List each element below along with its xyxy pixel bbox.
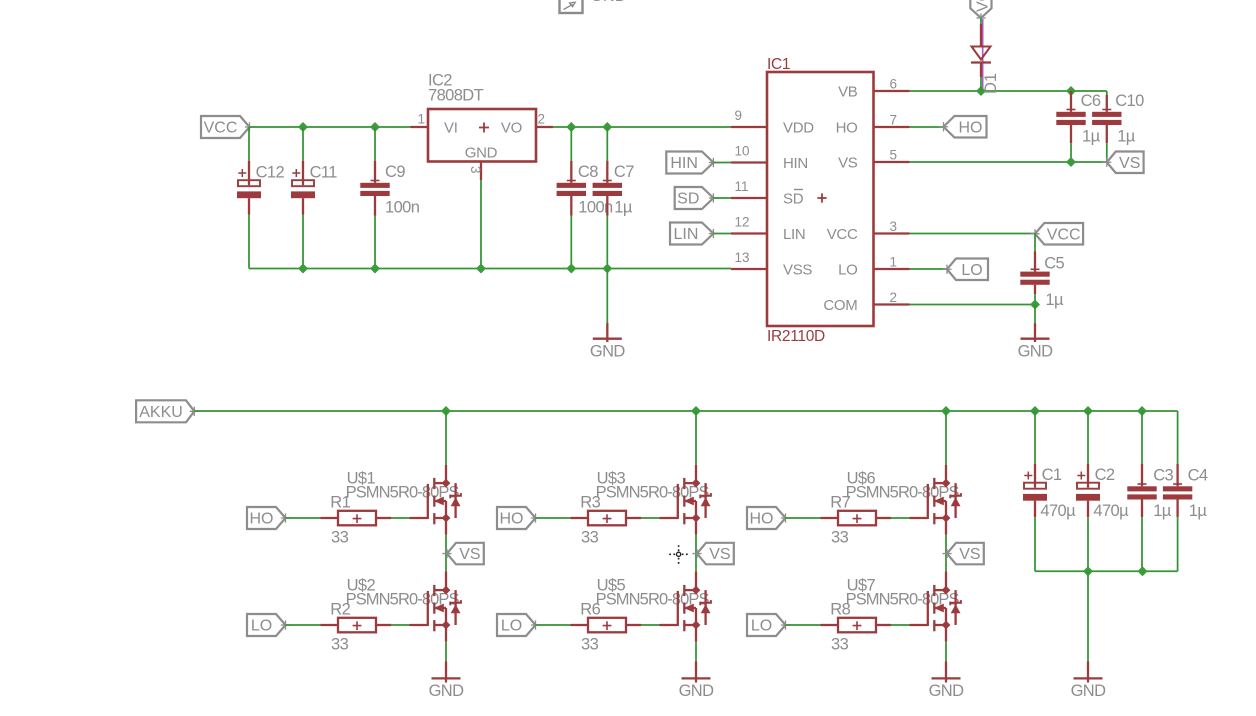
GND pin lead: [445, 662, 447, 683]
U$7 source pin: [945, 625, 947, 642]
svg-text:R1: R1: [330, 493, 350, 511]
svg-text:C3: C3: [1153, 466, 1173, 484]
ground symbol GND bridge 1: [429, 678, 465, 700]
capacitor C3: [1127, 411, 1173, 571]
junction C7/gnd rail: [602, 264, 612, 274]
net flag VS bridge 2: [692, 543, 733, 565]
svg-text:6: 6: [890, 77, 898, 92]
wire SD to pin 11: [713, 197, 731, 199]
svg-text:VS: VS: [709, 546, 730, 563]
IC1 right pin names: [823, 84, 858, 315]
net flag HO (pin 7): [939, 116, 987, 138]
capacitor C6: [1056, 91, 1101, 162]
polarized capacitor C11: [291, 127, 337, 269]
svg-text:33: 33: [331, 528, 349, 546]
svg-text:HO: HO: [250, 511, 274, 528]
wire AKKU to U$3 drain: [695, 411, 697, 465]
resistor R6: [571, 600, 642, 653]
GND pin lead: [606, 323, 608, 342]
U$6 source pin: [945, 518, 947, 535]
svg-text:11: 11: [735, 179, 749, 194]
junction C6/VS: [1066, 157, 1076, 167]
svg-text:VS: VS: [959, 546, 980, 563]
junction C2/bottom rail: [1083, 566, 1093, 576]
svg-text:VS: VS: [838, 155, 858, 172]
IC1 pin 13: [731, 268, 767, 270]
U$1 drain pin: [445, 465, 447, 483]
net flag LO bridge 2: [497, 614, 540, 636]
wire LIN to pin 12: [713, 233, 731, 235]
wire VCC rail to IC2 pin 1: [250, 126, 413, 128]
U$7 name/value text: [846, 577, 960, 609]
svg-text:SD: SD: [783, 191, 804, 208]
IC1 pin 2: [874, 303, 910, 305]
voltage regulator IC2 7808DT: [428, 72, 536, 162]
svg-text:R6: R6: [580, 600, 600, 618]
svg-text:C10: C10: [1115, 92, 1144, 110]
polarized capacitor C1: [1023, 411, 1076, 571]
svg-text:1µ: 1µ: [1045, 291, 1064, 309]
GND pin lead: [695, 662, 697, 683]
junction C5/COM: [1030, 300, 1040, 310]
junction C9/top rail: [370, 122, 380, 132]
capacitor C10: [1092, 92, 1144, 162]
capacitor C8: [557, 127, 613, 269]
svg-text:VS: VS: [459, 546, 480, 563]
wire VB net: [910, 90, 1107, 92]
U$3 name/value text: [596, 469, 710, 501]
svg-text:C7: C7: [614, 163, 634, 181]
U$6 name/value text: [846, 469, 960, 501]
resistor R8: [821, 600, 892, 653]
svg-text:D1: D1: [982, 73, 1000, 94]
IC1 pin 3: [874, 232, 910, 234]
svg-text:100n: 100n: [385, 199, 420, 217]
wire HO to R7: [786, 517, 821, 519]
wire LO pin1: [910, 268, 948, 270]
svg-text:VDD: VDD: [783, 120, 814, 137]
svg-text:LO: LO: [501, 618, 522, 635]
svg-text:10: 10: [735, 143, 750, 158]
wire VS net top: [910, 161, 1107, 163]
junction AKKU rail x=946: [941, 406, 951, 416]
junction AKKU rail x=1035: [1030, 406, 1040, 416]
IC2 pin 3 (GND): [480, 162, 482, 181]
svg-text:HO: HO: [750, 511, 774, 528]
capacitor C9: [360, 127, 419, 269]
svg-text:GND: GND: [590, 343, 626, 361]
svg-text:LO: LO: [961, 262, 982, 279]
net flag LO bridge 3: [747, 614, 790, 636]
svg-text:HO: HO: [500, 511, 524, 528]
net flag SD: [675, 187, 718, 209]
U$1 name/value text: [346, 469, 460, 501]
svg-text:1µ: 1µ: [1153, 502, 1172, 520]
capacitor C5: [1020, 234, 1064, 310]
svg-text:GND: GND: [1071, 682, 1107, 700]
wire cap bottom rail: [1035, 570, 1178, 572]
wire R8 to gate: [891, 624, 910, 626]
svg-text:GND: GND: [429, 682, 465, 700]
junction C11/gnd rail: [298, 264, 308, 274]
wire LO to R8: [786, 624, 821, 626]
svg-text:C6: C6: [1081, 92, 1101, 110]
IC1 plus mark (SD row): [817, 193, 826, 202]
IC1 pin 7: [874, 126, 910, 128]
svg-text:COM: COM: [823, 297, 857, 314]
junction C8/gnd rail: [566, 264, 576, 274]
junction AKKU rail x=696: [691, 406, 701, 416]
U$3 source pin: [695, 518, 697, 535]
svg-text:VCC: VCC: [975, 0, 992, 12]
svg-text:R3: R3: [580, 493, 600, 511]
IC2 plus mark: [479, 123, 489, 133]
U$5 drain pin: [695, 571, 697, 590]
svg-text:1µ: 1µ: [1082, 128, 1101, 146]
svg-text:GND: GND: [679, 682, 715, 700]
wire VS node: [945, 535, 947, 572]
transistor U$2 PSMN5R0-80PS lower (N-MOSFET): [410, 585, 461, 631]
wire gnd rail to GND symbol: [606, 269, 608, 324]
junction AKKU rail x=446: [441, 406, 451, 416]
gate driver IC1 IR2110D box: [767, 56, 874, 345]
net flag LO (pin 1): [942, 259, 988, 281]
IC1 pin 11: [731, 197, 767, 199]
svg-text:12: 12: [735, 214, 750, 229]
svg-text:HIN: HIN: [783, 155, 808, 172]
IC2 pin 1: [411, 126, 429, 128]
junction C9/gnd rail: [370, 264, 380, 274]
svg-text:IR2110D: IR2110D: [767, 328, 825, 345]
resistor R2: [321, 600, 392, 653]
svg-text:33: 33: [831, 528, 849, 546]
IC1 pin 6: [874, 90, 910, 92]
svg-text:VI: VI: [444, 120, 458, 137]
net flag VCC (input rail): [201, 116, 254, 138]
ground symbol GND bridge 3: [929, 678, 965, 700]
svg-text:1µ: 1µ: [1189, 502, 1208, 520]
svg-text:1µ: 1µ: [1117, 128, 1136, 146]
U$3 drain pin: [695, 465, 697, 483]
svg-text:C4: C4: [1188, 466, 1208, 484]
net flag HO bridge 1: [247, 507, 290, 529]
transistor U$5 PSMN5R0-80PS lower (N-MOSFET): [660, 585, 711, 631]
wire R6 to gate: [641, 624, 660, 626]
junction C3/bottom rail: [1138, 566, 1148, 576]
IC1 pin 9: [731, 126, 767, 128]
junction C7/top rail: [602, 122, 612, 132]
wire source to GND: [445, 642, 447, 662]
net flag AKKU: [136, 400, 199, 422]
net flag VS bridge 1: [442, 543, 483, 565]
svg-text:VSS: VSS: [783, 262, 812, 279]
svg-text:IC1: IC1: [767, 56, 790, 73]
net flag LO bridge 1: [247, 614, 290, 636]
transistor U$3 PSMN5R0-80PS upper (N-MOSFET): [660, 478, 711, 524]
net flag LIN: [670, 223, 718, 245]
GND pin lead: [945, 662, 947, 683]
junction AKKU rail x=1088: [1083, 406, 1093, 416]
polarized capacitor C2: [1076, 411, 1129, 571]
svg-text:AKKU: AKKU: [139, 404, 183, 421]
U$5 name/value text: [596, 577, 710, 609]
svg-text:7: 7: [890, 113, 898, 128]
IC1 pin 12: [731, 232, 767, 234]
net flag VS (top right): [1102, 152, 1143, 174]
svg-text:C9: C9: [385, 163, 405, 181]
wire R7 to gate: [891, 517, 910, 519]
transistor U$1 PSMN5R0-80PS upper (N-MOSFET): [410, 478, 461, 524]
wire R2 to gate: [391, 624, 410, 626]
wire AKKU to U$6 drain: [945, 411, 947, 465]
svg-text:LIN: LIN: [673, 226, 698, 243]
wire ground rail left section: [249, 268, 731, 270]
wire R3 to gate: [641, 517, 660, 519]
wire VS node: [695, 535, 697, 572]
wire D1 to VB: [980, 77, 982, 91]
svg-text:R2: R2: [330, 600, 350, 618]
svg-text:9: 9: [735, 108, 743, 123]
capacitor C7: [593, 127, 635, 269]
svg-text:C1: C1: [1042, 466, 1062, 484]
svg-text:470µ: 470µ: [1040, 502, 1076, 520]
svg-text:GND: GND: [929, 682, 965, 700]
svg-text:5: 5: [890, 148, 898, 163]
U$5 source pin: [695, 625, 697, 642]
svg-text:C8: C8: [578, 163, 598, 181]
junction D1/VB: [976, 86, 986, 96]
U$1 source pin: [445, 518, 447, 535]
svg-text:HO: HO: [959, 119, 983, 136]
svg-text:LIN: LIN: [783, 226, 805, 243]
wire VO rail to IC1 pin 9: [553, 126, 731, 128]
net flag VS bridge 3: [942, 543, 983, 565]
junction IC2 pin3/gnd rail: [476, 264, 486, 274]
wire C10 drop: [1106, 91, 1108, 95]
transistor U$6 PSMN5R0-80PS upper (N-MOSFET): [910, 478, 961, 524]
wire R1 to gate: [391, 517, 410, 519]
svg-text:LO: LO: [251, 618, 272, 635]
cut-off frame reference symbol top-left: [560, 0, 627, 13]
junction C11/top rail: [298, 122, 308, 132]
svg-text:GND: GND: [590, 0, 627, 5]
IC2 pin 2: [536, 126, 553, 128]
U$2 name/value text: [346, 577, 460, 609]
svg-text:2: 2: [890, 290, 898, 305]
net flag VCC (right): [1030, 223, 1083, 245]
purple overlay line at D1: [982, 19, 984, 88]
wire source to GND: [945, 642, 947, 662]
svg-text:VS: VS: [1119, 155, 1140, 172]
wire COM net: [910, 304, 1036, 306]
IC1 pin 5: [874, 161, 910, 163]
IC1 left pin names: [783, 120, 814, 279]
U$7 drain pin: [945, 571, 947, 590]
net flag HO bridge 2: [497, 507, 540, 529]
net flag HO bridge 3: [747, 507, 790, 529]
wire IC2 pin3 to ground rail: [480, 180, 482, 269]
svg-text:33: 33: [331, 635, 349, 653]
net flag VCC (vertical, cut off at top): [970, 0, 991, 23]
wire AKKU rail: [194, 410, 1177, 412]
ground symbol GND under C7: [590, 339, 626, 361]
resistor R1: [321, 493, 392, 546]
svg-text:33: 33: [581, 635, 599, 653]
resistor R7: [821, 493, 892, 546]
wire AKKU to U$1 drain: [445, 411, 447, 465]
svg-text:13: 13: [735, 250, 750, 265]
svg-text:VCC: VCC: [204, 120, 238, 137]
U$2 source pin: [445, 625, 447, 642]
wire source to GND: [695, 642, 697, 662]
capacitor C4: [1163, 464, 1208, 572]
svg-text:C12: C12: [256, 164, 285, 182]
svg-text:2: 2: [538, 112, 546, 127]
wire HO to R1: [286, 517, 321, 519]
svg-text:7808DT: 7808DT: [428, 87, 484, 105]
polarized capacitor C12: [237, 127, 284, 269]
junction C8/top rail: [566, 122, 576, 132]
svg-text:C5: C5: [1044, 255, 1064, 273]
ground symbol GND bridge 2: [679, 678, 715, 700]
svg-text:33: 33: [831, 635, 849, 653]
resistor R3: [571, 493, 642, 546]
wire LO to R2: [286, 624, 321, 626]
wire HO to R3: [536, 517, 571, 519]
svg-text:VCC: VCC: [1047, 226, 1081, 243]
U$2 drain pin: [445, 571, 447, 590]
svg-text:GND: GND: [1018, 343, 1054, 361]
svg-text:33: 33: [581, 528, 599, 546]
svg-text:HIN: HIN: [670, 155, 698, 172]
svg-text:GND: GND: [465, 145, 498, 162]
wire HIN to pin 10: [713, 162, 731, 164]
svg-text:R8: R8: [830, 600, 850, 618]
wire VCC flag to D1: [980, 18, 982, 24]
svg-text:470µ: 470µ: [1093, 502, 1129, 520]
svg-text:HO: HO: [836, 120, 858, 137]
svg-text:LO: LO: [838, 262, 857, 279]
IC1 pin 1: [874, 268, 910, 270]
svg-text:1µ: 1µ: [614, 199, 633, 217]
svg-text:VCC: VCC: [827, 226, 858, 243]
ground symbol GND under caps: [1071, 678, 1107, 700]
svg-text:3: 3: [468, 166, 483, 174]
svg-text:3: 3: [890, 219, 898, 234]
svg-text:LO: LO: [751, 618, 772, 635]
GND pin lead: [1087, 662, 1089, 683]
junction C6/VB: [1066, 86, 1076, 96]
mouse crosshair cursor: [669, 545, 688, 564]
svg-text:1: 1: [418, 112, 426, 127]
wire VS node: [445, 535, 447, 572]
svg-text:VO: VO: [501, 120, 522, 137]
svg-text:R7: R7: [830, 493, 850, 511]
svg-text:VB: VB: [838, 84, 858, 101]
IC1 pin 10: [731, 161, 767, 163]
GND pin lead: [1034, 323, 1036, 342]
wire bottom rail to GND: [1087, 571, 1089, 661]
ground symbol GND under C5: [1018, 339, 1054, 361]
U$6 drain pin: [945, 465, 947, 483]
transistor U$7 PSMN5R0-80PS lower (N-MOSFET): [910, 585, 961, 631]
diode D1: [971, 24, 1000, 94]
svg-text:1: 1: [890, 255, 898, 270]
svg-text:SD: SD: [677, 191, 699, 208]
wire COM to GND: [1034, 305, 1036, 324]
svg-text:C2: C2: [1095, 466, 1115, 484]
wire LO to R6: [536, 624, 571, 626]
wire AKKU corner to C4: [1177, 411, 1179, 464]
wire HO pin7: [910, 126, 944, 128]
wire VCC pin3: [910, 233, 1036, 235]
junction AKKU rail x=1142: [1137, 406, 1147, 416]
net flag HIN: [666, 152, 718, 174]
svg-text:C11: C11: [310, 164, 338, 182]
